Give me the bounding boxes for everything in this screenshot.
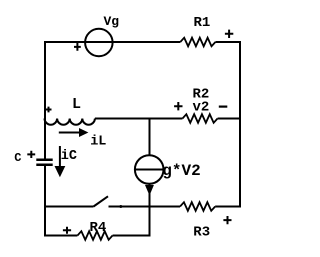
wire top rail right segment (215, 41, 241, 43)
wire bottom rail right segment (113, 235, 151, 237)
voltage source Vg circle (85, 29, 113, 57)
polarity plus L (46, 107, 52, 113)
resistor R1 (180, 38, 215, 47)
polarity plus R4 (63, 227, 71, 234)
capacitor C top plate (36, 159, 52, 162)
resistor R3 (180, 202, 215, 211)
wire left vertical upper (44, 41, 46, 159)
resistor R2 (182, 114, 217, 123)
switch blade (94, 196, 109, 206)
current arrow iL head (79, 128, 88, 137)
wire bottom rail left segment (44, 235, 77, 237)
svg-text:C: C (14, 151, 21, 165)
wire middle rail right segment (218, 118, 241, 120)
svg-text:v2: v2 (193, 99, 210, 115)
wire switch rail middle segment (109, 206, 181, 208)
polarity minus v2 (219, 105, 228, 107)
switch contact dot (119, 205, 122, 208)
svg-text:Vg: Vg (104, 14, 120, 29)
polarity plus C (27, 151, 35, 158)
svg-text:iL: iL (90, 134, 106, 149)
wire right vertical (239, 41, 241, 208)
current arrow iL line (59, 132, 80, 134)
svg-text:R1: R1 (194, 15, 211, 31)
wire dependent source bottom segment (149, 184, 151, 237)
capacitor C bottom plate (36, 164, 52, 167)
current source g*V2 arrow head (145, 185, 154, 196)
current arrow iC head (55, 166, 66, 177)
wire top rail left segment (44, 41, 180, 43)
svg-text:L: L (72, 96, 81, 113)
wire middle rail left segment (95, 118, 183, 120)
wire dependent source top stub (149, 119, 151, 156)
current arrow iC line (59, 146, 61, 168)
polarity plus R1 (225, 30, 233, 38)
current source g*V2 chord (135, 169, 164, 171)
wire switch rail right segment (215, 206, 241, 208)
polarity plus R3 (223, 216, 231, 224)
wire switch rail left segment (44, 206, 94, 208)
current source g*V2 circle (135, 155, 164, 184)
svg-text:g*V2: g*V2 (162, 162, 200, 180)
svg-text:R4: R4 (90, 220, 107, 236)
polarity plus Vg (74, 43, 81, 51)
inductor L (45, 119, 95, 125)
svg-text:iC: iC (61, 149, 77, 164)
polarity plus v2 (174, 102, 182, 110)
svg-text:R3: R3 (193, 225, 210, 241)
wire left vertical lower (44, 166, 46, 237)
resistor R4 (77, 231, 112, 240)
